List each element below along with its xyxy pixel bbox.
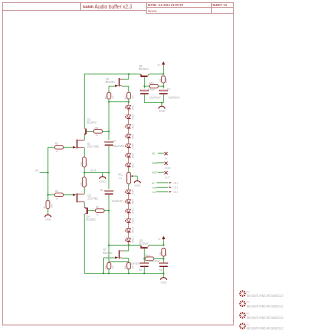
ground GND at OUT bbox=[100, 177, 106, 179]
svg-text:C6: C6 bbox=[159, 269, 163, 272]
node rail Q7 gate bbox=[103, 273, 105, 275]
svg-text:C8: C8 bbox=[100, 189, 104, 192]
resistor R3 bbox=[55, 193, 64, 197]
wire Q7 gate to rail bbox=[103, 257, 115, 259]
svg-text:IN: IN bbox=[165, 156, 168, 160]
svg-text:OUT: OUT bbox=[90, 168, 97, 172]
node OUT on bias column bbox=[108, 172, 110, 174]
resistor R4 bbox=[82, 157, 86, 167]
svg-text:SHEET: 1/1: SHEET: 1/1 bbox=[213, 3, 228, 7]
svg-text:GND: GND bbox=[165, 166, 171, 170]
svg-text:OUT: OUT bbox=[165, 176, 171, 180]
svg-text:GND: GND bbox=[100, 180, 106, 184]
wire R1 to ground bbox=[47, 209, 49, 215]
wire V+ rail top bbox=[84, 73, 140, 75]
capacitor C8 bbox=[105, 189, 113, 192]
svg-text:MOUNT-PAD-ROUND3.2: MOUNT-PAD-ROUND3.2 bbox=[247, 316, 284, 320]
wire OUT net bbox=[84, 172, 109, 174]
wire lower rail left bbox=[109, 244, 140, 246]
wire R11 wiper bbox=[133, 175, 138, 177]
resistor R6 bbox=[94, 130, 103, 134]
svg-text:IN: IN bbox=[35, 169, 38, 173]
svg-text:10R: 10R bbox=[151, 89, 155, 91]
LED LED4 bbox=[125, 131, 131, 141]
wire R5 to Q2 source bbox=[83, 187, 85, 194]
wire Q5 base lead bbox=[143, 77, 145, 86]
resistor R5 bbox=[82, 177, 86, 187]
svg-text:GND: GND bbox=[134, 184, 140, 188]
svg-text:R4: R4 bbox=[87, 163, 89, 166]
ground GND bottom rail bbox=[161, 278, 167, 280]
wire P- stem bbox=[163, 241, 165, 246]
node Q6 drain on rail bbox=[128, 73, 130, 75]
wire C3/C4 ground join bbox=[144, 102, 163, 104]
svg-text:OUT: OUT bbox=[152, 170, 158, 174]
svg-text:X2-3: X2-3 bbox=[173, 191, 179, 194]
svg-text:LED2: LED2 bbox=[132, 114, 134, 120]
svg-text:GND: GND bbox=[159, 109, 165, 113]
resistor R17 vertical bottom-right bbox=[162, 248, 166, 256]
wire R8/R9 join bbox=[108, 99, 110, 102]
wire Q2 gate bbox=[63, 194, 73, 196]
node R8 bottom bbox=[108, 101, 110, 103]
svg-text:LED9: LED9 bbox=[132, 198, 134, 204]
svg-text:LED4: LED4 bbox=[132, 133, 134, 139]
wire Q8 emitter to V- node bbox=[149, 244, 163, 246]
svg-text:10uF/16V: 10uF/16V bbox=[112, 199, 124, 203]
svg-text:10uF/16V: 10uF/16V bbox=[168, 96, 180, 100]
node IN junction bbox=[47, 172, 49, 174]
svg-text:R5: R5 bbox=[87, 183, 89, 186]
svg-text:C5: C5 bbox=[139, 269, 143, 272]
capacitor C5 bbox=[143, 259, 145, 263]
wire R7 to bias column bbox=[104, 210, 109, 212]
wire OUT gnd stub bbox=[102, 173, 104, 177]
transistor Q2 2SJ74BL bbox=[77, 193, 84, 202]
mount pad H3 bbox=[239, 300, 246, 307]
resistor R9 bbox=[127, 92, 131, 99]
wire IN stub bbox=[40, 172, 48, 174]
svg-text:10R: 10R bbox=[160, 78, 162, 82]
svg-text:R13: R13 bbox=[149, 82, 154, 85]
wire Q1 source down bbox=[83, 148, 85, 157]
wire Q7 drain up bbox=[124, 250, 129, 252]
wire Q4 base bbox=[88, 210, 95, 212]
capacitor C6 bbox=[163, 259, 165, 263]
svg-text:X2-1: X2-1 bbox=[173, 182, 179, 185]
power symbol P- V2 bbox=[162, 236, 165, 239]
svg-text:10R: 10R bbox=[160, 252, 162, 256]
svg-text:100: 100 bbox=[113, 95, 115, 99]
node R7 bias junction bbox=[108, 210, 110, 212]
node R3 junction bbox=[47, 194, 49, 196]
svg-text:OUT: OUT bbox=[152, 192, 157, 194]
svg-text:DATE: 4.4.2011 21:05:07: DATE: 4.4.2011 21:05:07 bbox=[148, 3, 183, 7]
LED LED7 bbox=[125, 160, 131, 170]
resistor R13 bbox=[150, 84, 159, 88]
transistor Q7 BF245C bbox=[119, 250, 123, 258]
wire chain top bbox=[128, 102, 130, 103]
svg-text:1k: 1k bbox=[56, 151, 59, 153]
LED LED1 bbox=[125, 103, 131, 113]
svg-text:P+: P+ bbox=[158, 64, 162, 67]
node rail C6 gnd bbox=[163, 273, 165, 275]
svg-text:LED13: LED13 bbox=[132, 236, 134, 243]
node Q8 base junction bbox=[144, 258, 146, 260]
svg-text:MOUNT-PAD-ROUND3.2: MOUNT-PAD-ROUND3.2 bbox=[247, 304, 284, 308]
LED LED5 bbox=[125, 141, 131, 151]
svg-text:BC556C: BC556C bbox=[139, 241, 149, 245]
svg-text:BF245C: BF245C bbox=[106, 80, 116, 84]
svg-text:MOUNT-PAD-ROUND3.2: MOUNT-PAD-ROUND3.2 bbox=[247, 327, 284, 331]
node R9 bottom chain top bbox=[128, 101, 130, 103]
resistor R7 bbox=[95, 209, 104, 213]
svg-text:R14: R14 bbox=[145, 254, 150, 257]
wire V- bottom rail bbox=[84, 272, 163, 274]
svg-text:LED12: LED12 bbox=[132, 226, 134, 233]
svg-text:2SK170BL: 2SK170BL bbox=[87, 145, 100, 149]
transistor Q4 BC556C bbox=[84, 207, 87, 214]
wire R11 to lower chain bbox=[128, 184, 130, 187]
svg-text:BF245C: BF245C bbox=[103, 251, 113, 255]
svg-text:2SJ74BL: 2SJ74BL bbox=[88, 197, 99, 201]
ground GND at R1 bbox=[45, 215, 51, 217]
wire rail gnd stub bbox=[163, 273, 165, 277]
node V+ junction bbox=[163, 73, 165, 75]
frame border bbox=[3, 3, 234, 326]
node R13/R10 junction bbox=[163, 85, 165, 87]
wire C6 bottom bbox=[163, 267, 165, 273]
wire R13 left bbox=[144, 85, 149, 87]
svg-text:10uF/16V: 10uF/16V bbox=[149, 96, 161, 100]
node chain bottom junction bbox=[128, 244, 130, 246]
wire Q6 drain to rail bbox=[124, 78, 129, 80]
svg-text:GND: GND bbox=[152, 161, 158, 165]
wire R6 to bias column bbox=[102, 130, 109, 132]
wire C5 bottom bbox=[143, 267, 145, 273]
wire to R1 bbox=[47, 195, 49, 201]
wire R17 to node bbox=[163, 256, 165, 259]
wire Q5 emitter to V+ node bbox=[149, 73, 163, 75]
wire R13 right bbox=[158, 85, 163, 87]
wire R15 bottom bbox=[108, 269, 110, 273]
LED LED8 bbox=[125, 187, 131, 197]
LED LED9 bbox=[125, 197, 131, 207]
trimmer R11 bbox=[127, 172, 131, 184]
transistor Q3 BC546C bbox=[84, 128, 86, 135]
node R14/R17 junction bbox=[163, 258, 165, 260]
svg-text:22k: 22k bbox=[118, 178, 122, 180]
svg-text:C7: C7 bbox=[113, 140, 117, 143]
resistor R8 bbox=[107, 92, 111, 99]
node rail R15 bbox=[108, 273, 110, 275]
mount pad H2 bbox=[239, 312, 246, 319]
wire R15/R16 top join bbox=[109, 261, 129, 263]
wire input vertical bbox=[47, 147, 49, 195]
wire Q8 base lead bbox=[143, 249, 145, 259]
LED LED10 bbox=[125, 206, 131, 216]
svg-text:C4: C4 bbox=[167, 88, 171, 91]
power symbol P+ V1 bbox=[162, 61, 165, 64]
capacitor C3 bbox=[143, 86, 145, 88]
svg-text:P-: P- bbox=[158, 239, 161, 242]
svg-text:Device:: Device: bbox=[148, 9, 158, 13]
resistor R15 bbox=[107, 262, 111, 269]
wire C3 bottom bbox=[143, 94, 145, 102]
svg-text:1k: 1k bbox=[96, 215, 99, 217]
svg-text:100: 100 bbox=[113, 265, 115, 269]
transistor Q1 2SK170BL bbox=[77, 140, 84, 149]
svg-text:LED1: LED1 bbox=[132, 104, 134, 110]
resistor R10 vertical top-right bbox=[162, 76, 166, 83]
svg-text:1k: 1k bbox=[56, 199, 59, 201]
wire chain bottom bbox=[128, 244, 130, 246]
wire P+ stem bbox=[162, 66, 164, 74]
LED LED3 bbox=[125, 122, 131, 132]
svg-text:R10: R10 bbox=[166, 78, 168, 83]
wire R2 left bbox=[48, 146, 55, 148]
wire Q6 gate bbox=[109, 85, 115, 87]
svg-text:GND: GND bbox=[161, 281, 167, 285]
svg-text:R17: R17 bbox=[166, 251, 168, 256]
svg-text:R11: R11 bbox=[118, 174, 123, 177]
svg-text:NAME:: NAME: bbox=[83, 5, 94, 9]
wire left column lower bbox=[83, 215, 85, 274]
transistor Q5 BC546C bbox=[140, 74, 149, 76]
capacitor C4 bbox=[162, 86, 164, 88]
node OUT junction bbox=[84, 172, 86, 174]
wire C4 bottom bbox=[162, 94, 164, 102]
wire Q1 gate bbox=[63, 146, 73, 148]
wire Q3 emitter down bbox=[83, 135, 85, 140]
transistor Q6 BF245C bbox=[119, 78, 123, 86]
svg-text:LED10: LED10 bbox=[132, 207, 134, 214]
wire R4 to OUT node bbox=[83, 167, 85, 177]
wire Q2 drain down bbox=[83, 202, 85, 208]
svg-text:BC556C: BC556C bbox=[86, 218, 96, 222]
resistor R2 bbox=[55, 146, 64, 150]
svg-text:IN: IN bbox=[152, 151, 155, 155]
wire Q7 source bbox=[122, 257, 129, 259]
wire Q6 source bbox=[122, 85, 129, 87]
resistor R1 bbox=[46, 200, 50, 208]
node R6 bias junction bbox=[108, 131, 110, 133]
wire bias column segment 1 bbox=[108, 102, 110, 140]
wire R16 bottom bbox=[128, 269, 130, 273]
svg-text:10R: 10R bbox=[81, 162, 83, 166]
svg-text:100: 100 bbox=[132, 95, 134, 99]
wire bias column segment 2 bbox=[108, 146, 110, 189]
wire left column upper (Q1 drain to rail) bbox=[83, 74, 85, 128]
wire chain to R11 bbox=[128, 168, 130, 172]
transistor Q8 BC556C bbox=[140, 245, 149, 248]
svg-text:100k: 100k bbox=[51, 204, 53, 208]
svg-text:1k: 1k bbox=[96, 135, 99, 137]
wire bias column segment 3 bbox=[108, 195, 110, 263]
LED LED11 bbox=[125, 216, 131, 226]
svg-text:MOUNT-PAD-ROUND3.2: MOUNT-PAD-ROUND3.2 bbox=[247, 294, 284, 298]
svg-text:X2-2: X2-2 bbox=[173, 187, 179, 190]
ground GND at R11 wiper bbox=[134, 181, 140, 183]
node ground join bbox=[161, 102, 163, 104]
svg-text:BC546C: BC546C bbox=[87, 121, 97, 125]
node rail R16 bbox=[128, 273, 130, 275]
svg-text:Audio buffer v2.3: Audio buffer v2.3 bbox=[95, 4, 133, 10]
ground GND top-right bbox=[159, 106, 165, 108]
resistor R16 bbox=[127, 262, 131, 269]
capacitor C7 bbox=[105, 141, 113, 144]
node rail C5 bbox=[144, 273, 146, 275]
wire Q3 base bbox=[87, 130, 94, 132]
svg-text:GND: GND bbox=[45, 218, 51, 222]
svg-text:LED6: LED6 bbox=[132, 152, 134, 158]
wire ground stub bbox=[161, 103, 163, 107]
svg-text:LED8: LED8 bbox=[132, 189, 134, 195]
svg-text:IN: IN bbox=[152, 183, 155, 185]
node bias column crossing bbox=[108, 244, 110, 246]
svg-text:10R: 10R bbox=[81, 182, 83, 186]
svg-text:10uF/16V: 10uF/16V bbox=[129, 262, 141, 266]
mount pad H1 bbox=[239, 323, 246, 330]
LED LED2 bbox=[125, 112, 131, 122]
title block dividers bbox=[3, 3, 234, 14]
wire R14 right bbox=[154, 258, 164, 260]
svg-text:LED5: LED5 bbox=[132, 143, 134, 149]
svg-text:GND: GND bbox=[152, 187, 157, 189]
svg-text:BC546C: BC546C bbox=[139, 67, 149, 71]
wire R10 to node bbox=[162, 83, 164, 86]
node V- junction bbox=[163, 244, 165, 246]
svg-text:LED7: LED7 bbox=[132, 162, 134, 168]
mount pad H4 bbox=[239, 290, 246, 297]
wire R3 left bbox=[48, 194, 55, 196]
resistor R14 bbox=[145, 257, 154, 261]
LED LED6 bbox=[125, 151, 131, 161]
node Q5 base junction bbox=[144, 85, 146, 87]
svg-text:LED11: LED11 bbox=[132, 217, 134, 224]
svg-text:10uF/16V: 10uF/16V bbox=[113, 144, 125, 148]
LED LED12 bbox=[125, 226, 131, 236]
svg-text:10uF/16V: 10uF/16V bbox=[148, 259, 160, 263]
LED LED13 bbox=[125, 235, 131, 245]
svg-text:LED3: LED3 bbox=[132, 123, 134, 129]
